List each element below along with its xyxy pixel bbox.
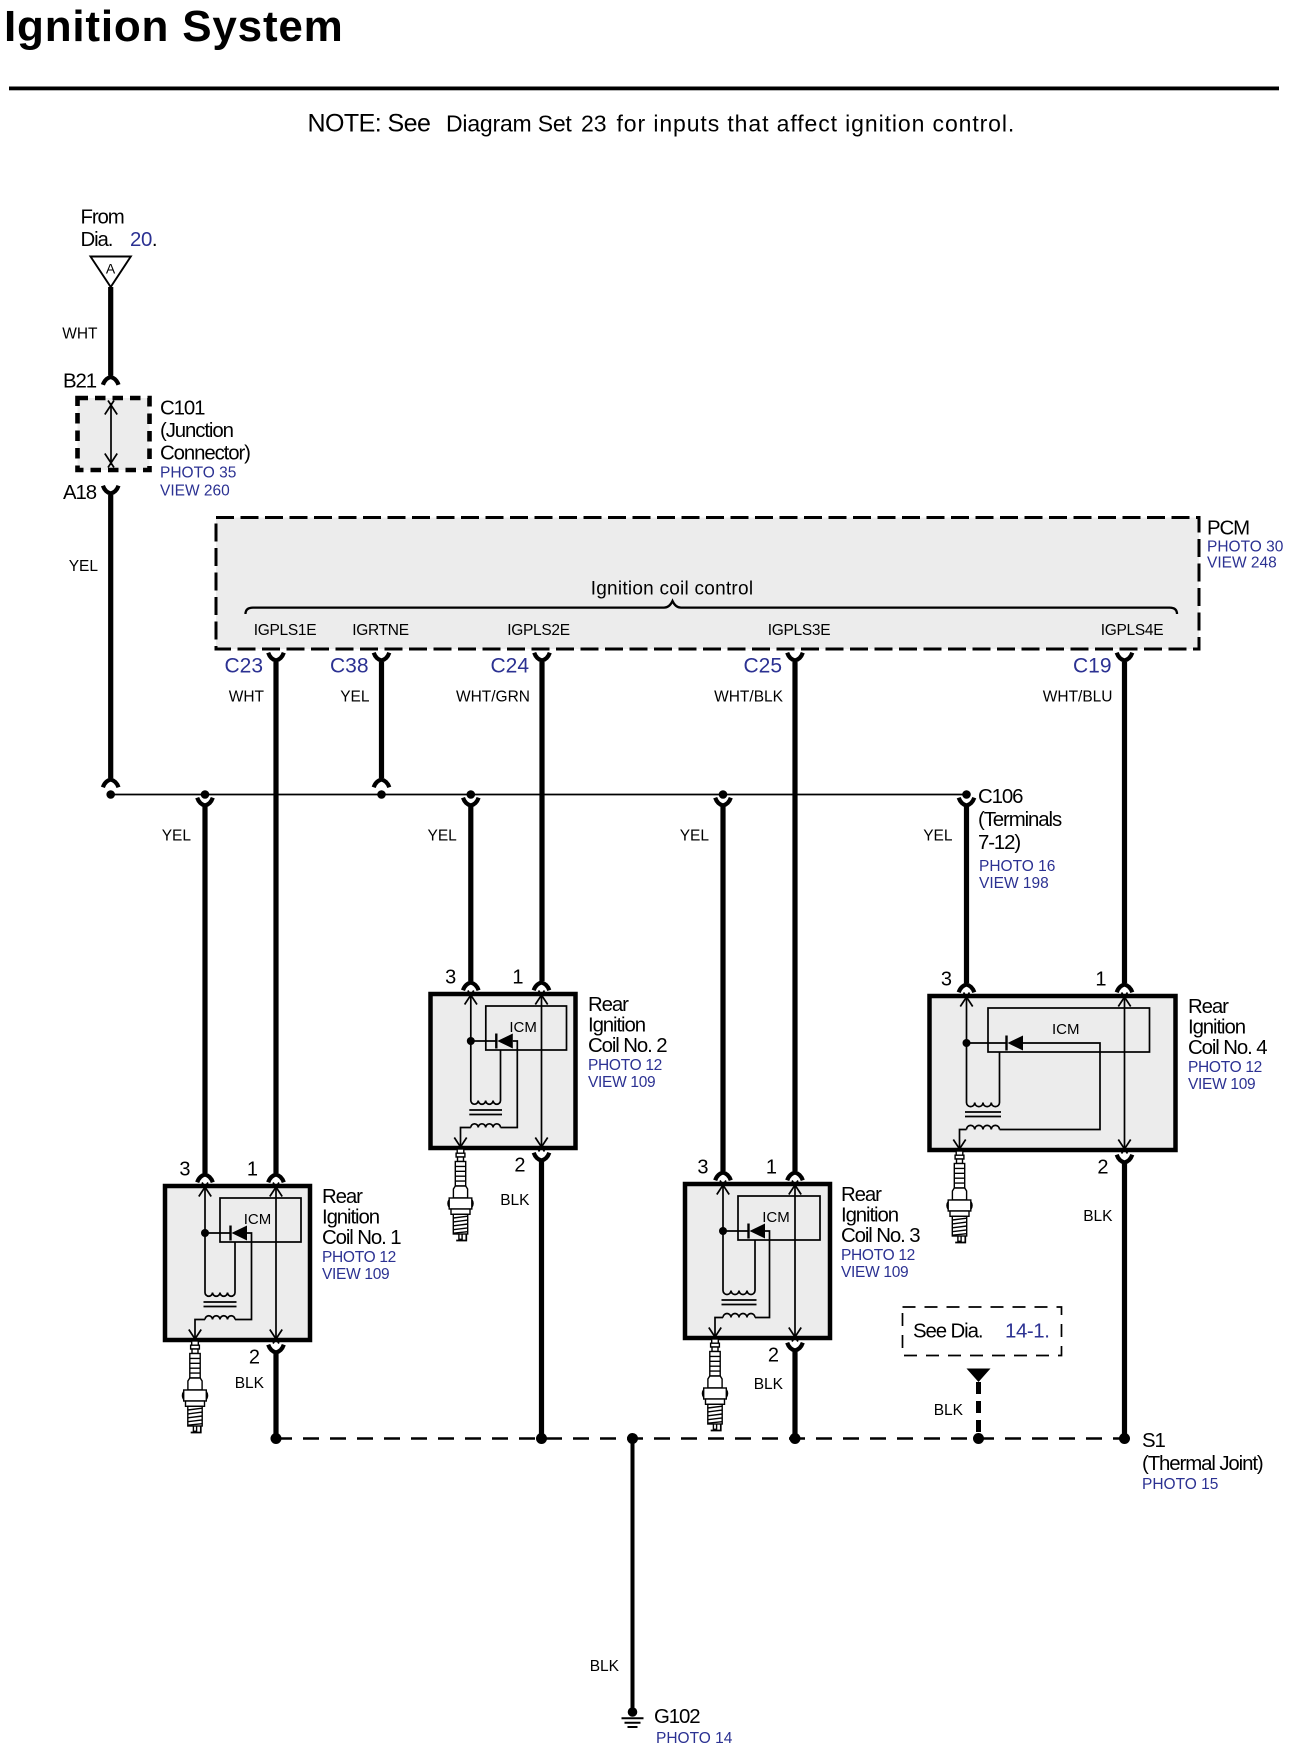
spark plug P4 [947,1151,972,1243]
U4 transformer T4 secondary winding [967,1125,1000,1129]
ignition coil U3 box (Rear Ignition Coil No. 3) [685,1184,830,1338]
U1 diode D1 [205,1232,231,1234]
U2 ICM driver box [486,1006,567,1050]
U1 pin 3 entry arrow [199,1183,211,1197]
connector half C25 (wire start) [787,653,803,661]
svg-text:ICM: ICM [244,1211,272,1228]
svg-text:C25: C25 [743,654,782,677]
U3 wire dot to primary left [722,1231,724,1291]
U2 diode D2 [471,1040,497,1042]
svg-text:ICM: ICM [509,1019,537,1036]
svg-text:Rear: Rear [841,1184,882,1206]
svg-text:20.: 20. [130,229,157,251]
svg-text:WHT: WHT [62,326,98,343]
svg-text:1: 1 [766,1156,777,1178]
junction dot on S1 bus at x=541.5 [536,1433,547,1444]
U1 pin 1 to pin 2 internal lead [275,1186,277,1340]
wire BLK from U1 pin 2 to S1 bus [273,1352,278,1439]
U4 wire dot to primary left [966,1043,968,1103]
svg-text:1: 1 [512,966,523,988]
U2 wire dot to primary left [470,1041,472,1101]
svg-text:Ignition: Ignition [1188,1017,1246,1039]
junction dot on C106 bus at x=110.7 [106,790,115,799]
svg-text:PHOTO 15: PHOTO 15 [1142,1476,1218,1493]
svg-text:VIEW 109: VIEW 109 [588,1074,655,1091]
U2 wire primary right to ICM [500,1050,502,1101]
U1 wire primary right to ICM [234,1242,236,1293]
connector half at U2 pin 2 [534,1153,550,1161]
svg-text:NOTE: See: NOTE: See [308,109,431,137]
svg-text:Coil No. 4: Coil No. 4 [1188,1037,1267,1059]
svg-text:1: 1 [1095,968,1106,990]
U4 diode D4 [967,1042,1007,1044]
reference box See Dia. 14-1. [903,1307,1062,1356]
svg-text:B21: B21 [63,370,97,392]
connector half C106 terminal (YEL drop 2 start) [463,798,479,806]
U1 transformer T1 secondary winding [205,1316,235,1320]
connector half C23 (wire start) [268,653,284,661]
svg-text:BLK: BLK [235,1375,265,1392]
wire YEL C38 to C106 bus [379,662,384,778]
svg-text:VIEW 248: VIEW 248 [1207,555,1277,572]
svg-text:C106: C106 [978,786,1023,808]
U3 wire diode anode to secondary [755,1231,770,1318]
svg-text:(Junction: (Junction [160,420,234,442]
U3 pin 1 to pin 2 internal lead [794,1184,796,1338]
connector half at U3 pin 2 [787,1343,803,1351]
ignition coil U1 box (Rear Ignition Coil No. 1) [165,1186,310,1340]
U2 wire secondary left to spark-plug pin [461,1128,471,1149]
U3 transformer T3 core [722,1300,757,1305]
U3 pin 2 exit arrow [789,1328,801,1342]
U4 transformer T4 core [965,1112,1001,1117]
U2 transformer T2 core [469,1110,502,1115]
U2 transformer T2 secondary winding [471,1124,501,1128]
svg-text:3: 3 [179,1158,190,1180]
U2 pin 3 entry arrow [465,991,477,1005]
svg-text:YEL: YEL [427,828,457,845]
svg-text:VIEW 198: VIEW 198 [979,875,1049,892]
svg-text:G102: G102 [654,1706,700,1728]
connector half C106 terminal (A18 wire end) [103,780,119,788]
U4 wire diode anode to secondary [1000,1043,1101,1130]
junction dot on C106 bus at x=470.8 [467,790,476,799]
svg-text:Connector): Connector) [160,442,250,464]
dashed wire BLK from S1 bus to Dia 14-1 [976,1382,981,1434]
svg-text:C19: C19 [1073,654,1112,677]
svg-text:Rear: Rear [1188,996,1229,1018]
svg-text:23: 23 [581,111,607,137]
U2 pin 3 internal lead [470,994,472,1041]
brace: ignition coil control bus inside PCM [246,601,1178,614]
svg-text:Coil No. 3: Coil No. 3 [841,1225,920,1247]
svg-text:Rear: Rear [322,1186,363,1208]
junction dot on S1 bus at x=795 [790,1433,801,1444]
junction dot on S1 bus at x=1124.5 [1119,1433,1130,1444]
connector half at U3 pin 3 [715,1173,731,1181]
svg-text:PHOTO 12: PHOTO 12 [588,1057,662,1074]
svg-text:Ignition coil control: Ignition coil control [591,579,754,600]
U2 internal node junction dot [467,1037,475,1045]
connector half A18 (wire start) [103,486,119,494]
svg-text:IGRTNE: IGRTNE [352,622,408,639]
svg-text:(Thermal Joint): (Thermal Joint) [1142,1453,1263,1475]
svg-text:BLK: BLK [934,1402,964,1419]
svg-text:VIEW 260: VIEW 260 [160,482,230,499]
svg-text:2: 2 [768,1345,779,1367]
connector half C106 terminal (YEL drop 4 start) [959,798,975,806]
U4 pin 1 entry arrow [1118,993,1130,1007]
wire BLK from S1 bus to G102 [631,1439,635,1710]
svg-text:(Terminals: (Terminals [978,809,1062,831]
junction dot on C106 bus at x=723 [719,790,728,799]
svg-text:ICM: ICM [1052,1021,1080,1038]
U4 pin 2 exit arrow [1118,1140,1130,1154]
svg-text:A18: A18 [63,482,97,504]
ignition coil U2 box (Rear Ignition Coil No. 2) [431,994,576,1148]
svg-text:Coil No. 2: Coil No. 2 [588,1035,667,1057]
svg-text:C101: C101 [160,398,205,420]
svg-text:IGPLS2E: IGPLS2E [507,622,570,639]
spark plug P3 [702,1339,727,1431]
U1 spark plug output arrow [189,1330,201,1344]
svg-text:2: 2 [249,1347,260,1369]
U4 spark plug output arrow [953,1140,965,1154]
svg-text:3: 3 [697,1156,708,1178]
connector half C24 (wire start) [534,653,550,661]
svg-text:C38: C38 [330,654,369,677]
U1 wire dot to primary left [204,1233,206,1293]
connector half C106 terminal (YEL drop 1 start) [197,798,213,806]
connector half at U4 pin 1 [1117,985,1133,993]
connector half at U2 pin 1 [534,983,550,991]
svg-text:Rear: Rear [588,994,629,1016]
connector half at U4 pin 3 [959,985,975,993]
svg-text:Ignition System: Ignition System [4,2,344,51]
U1 wire secondary left to spark-plug pin [195,1320,205,1341]
svg-text:IGPLS4E: IGPLS4E [1101,622,1164,639]
svg-text:See Dia.: See Dia. [913,1321,982,1343]
svg-text:3: 3 [941,968,952,990]
svg-text:Ignition: Ignition [841,1205,899,1227]
U2 pin 1 to pin 2 internal lead [541,994,543,1148]
svg-text:ICM: ICM [762,1209,790,1226]
U4 wire secondary left to spark-plug pin [960,1130,967,1151]
connector half at U1 pin 2 [268,1345,284,1353]
off-page arrow to Dia 14-1 [967,1369,991,1383]
junction dot on S1 bus at x=632.5 [627,1433,638,1444]
svg-text:PHOTO 35: PHOTO 35 [160,465,236,482]
connector C101 junction connector box [78,398,150,470]
svg-text:BLK: BLK [1083,1208,1113,1225]
svg-text:VIEW 109: VIEW 109 [322,1266,389,1283]
U3 spark plug output arrow [709,1328,721,1342]
svg-text:Ignition: Ignition [322,1207,380,1229]
wire YEL from A18 down to C106 bus [108,495,113,778]
U3 pin 3 internal lead [722,1184,724,1231]
U1 wire diode anode to secondary [235,1233,252,1320]
svg-text:YEL: YEL [340,689,370,706]
U1 ICM driver box [220,1198,301,1242]
U2 transformer T2 primary winding [471,1101,501,1105]
connector half at U3 pin 1 [787,1173,803,1181]
svg-text:for inputs that affect ignitio: for inputs that affect ignition control. [617,110,1016,136]
wire WHT/GRN C24 to U2 pin 1 [539,662,544,981]
svg-text:VIEW 109: VIEW 109 [841,1264,908,1281]
svg-text:C23: C23 [224,654,263,677]
svg-text:YEL: YEL [680,828,710,845]
junction dot on C106 bus at x=381.5 [377,790,386,799]
svg-text:14-1.: 14-1. [1005,1321,1049,1343]
connector half at U1 pin 3 [197,1175,213,1183]
svg-text:Dia.: Dia. [81,229,113,251]
svg-text:7-12): 7-12) [978,832,1020,854]
U2 pin 1 entry arrow [535,991,547,1005]
junction dot on C106 bus at x=205 [201,790,210,799]
svg-text:PCM: PCM [1207,518,1249,540]
svg-text:VIEW 109: VIEW 109 [1188,1076,1255,1093]
junction dot on S1 bus at x=276 [271,1433,282,1444]
U2 pin 2 exit arrow [535,1138,547,1152]
svg-text:IGPLS1E: IGPLS1E [254,622,317,639]
svg-text:Ignition: Ignition [588,1015,646,1037]
C101 internal arrow up [105,401,117,415]
svg-text:BLK: BLK [590,1658,620,1675]
U1 internal node junction dot [201,1229,209,1237]
wire YEL from C106 bus to U2 pin 3 [468,806,473,981]
U1 transformer T1 core [204,1302,237,1307]
svg-text:YEL: YEL [162,828,192,845]
U4 wire primary right to ICM [999,1052,1001,1103]
U3 pin 1 entry arrow [789,1181,801,1195]
ground symbol G102 [628,1707,638,1717]
U3 pin 3 entry arrow [717,1181,729,1195]
svg-text:3: 3 [445,966,456,988]
off-page connector triangle A [91,257,131,288]
PCM module box [216,518,1199,650]
svg-text:BLK: BLK [754,1376,784,1393]
connector half at U4 pin 2 [1117,1155,1133,1163]
svg-text:2: 2 [1097,1157,1108,1179]
connector half B21 (wire end) [103,377,119,385]
svg-text:From: From [81,207,124,229]
U4 ICM driver box [988,1008,1150,1052]
wire YEL from C106 bus to U1 pin 3 [202,806,207,1173]
U4 transformer T4 primary winding [967,1103,1000,1107]
U4 internal node junction dot [963,1039,971,1047]
C101 internal arrow down [105,454,117,468]
wire YEL from C106 bus to U3 pin 3 [720,806,725,1171]
svg-text:BLK: BLK [500,1192,530,1209]
spark plug P2 [448,1149,473,1241]
ignition coil U4 box (Rear Ignition Coil No. 4) [930,996,1176,1150]
connector half at U2 pin 3 [463,983,479,991]
svg-text:PHOTO 12: PHOTO 12 [322,1249,396,1266]
U4 pin 3 entry arrow [960,993,972,1007]
U4 pin 1 to pin 2 internal lead [1124,996,1126,1150]
U3 wire secondary left to spark-plug pin [715,1318,723,1339]
node C106 bus wire [111,794,967,796]
U1 pin 3 internal lead [204,1186,206,1233]
svg-text:S1: S1 [1142,1430,1166,1452]
connector half C106 terminal (YEL drop 3 start) [715,798,731,806]
U3 diode D3 [723,1230,749,1232]
svg-text:WHT: WHT [229,689,265,706]
svg-text:C24: C24 [490,654,529,677]
wire YEL from C106 bus to U4 pin 3 [964,806,969,983]
C101 internal pass-through lead [110,403,112,465]
svg-text:Coil No. 1: Coil No. 1 [322,1227,401,1249]
U2 wire diode anode to secondary [501,1041,518,1128]
U3 wire primary right to ICM [754,1240,756,1291]
U3 transformer T3 primary winding [723,1291,755,1295]
junction dot on C106 bus at x=966.5 [962,790,971,799]
wire BLK from U2 pin 2 to S1 bus [539,1160,544,1439]
svg-text:PHOTO 30: PHOTO 30 [1207,539,1284,556]
U1 pin 2 exit arrow [270,1330,282,1344]
svg-text:1: 1 [247,1158,258,1180]
connector half at U1 pin 1 [268,1175,284,1183]
svg-text:IGPLS3E: IGPLS3E [768,622,831,639]
wire WHT C23 to U1 pin 1 [273,662,278,1173]
U2 spark plug output arrow [454,1138,466,1152]
svg-text:WHT/GRN: WHT/GRN [456,689,530,706]
connector half C106 terminal (C38 wire end) [374,780,390,788]
svg-text:Diagram Set: Diagram Set [446,111,572,137]
svg-text:2: 2 [514,1155,525,1177]
svg-text:PHOTO 12: PHOTO 12 [1188,1059,1262,1076]
junction dot on S1 bus at x=978.5 [973,1433,984,1444]
wire BLK from U4 pin 2 to S1 bus [1122,1162,1127,1439]
wire WHT/BLU C19 to U4 pin 1 [1122,662,1127,983]
U3 internal node junction dot [719,1227,727,1235]
wire WHT from triangle A to B21 [108,287,113,376]
node S1 thermal joint bus (dashed) [276,1437,1125,1440]
svg-text:WHT/BLU: WHT/BLU [1043,689,1113,706]
spark plug P1 [182,1341,207,1433]
U3 transformer T3 secondary winding [723,1314,755,1318]
svg-text:PHOTO 16: PHOTO 16 [979,858,1055,875]
connector half C38 (wire start) [374,653,390,661]
wire BLK from U3 pin 2 to S1 bus [792,1350,797,1439]
svg-text:PHOTO 12: PHOTO 12 [841,1247,915,1264]
svg-text:A: A [106,261,116,277]
U1 pin 1 entry arrow [270,1183,282,1197]
U4 pin 3 internal lead [966,996,968,1043]
U1 transformer T1 primary winding [205,1293,235,1297]
title rule [9,87,1279,91]
U3 ICM driver box [738,1196,820,1240]
svg-text:WHT/BLK: WHT/BLK [714,689,784,706]
svg-text:PHOTO 14: PHOTO 14 [656,1730,733,1747]
svg-text:YEL: YEL [69,558,99,575]
svg-text:YEL: YEL [923,828,953,845]
connector half C19 (wire start) [1117,653,1133,661]
wire WHT/BLK C25 to U3 pin 1 [792,662,797,1171]
